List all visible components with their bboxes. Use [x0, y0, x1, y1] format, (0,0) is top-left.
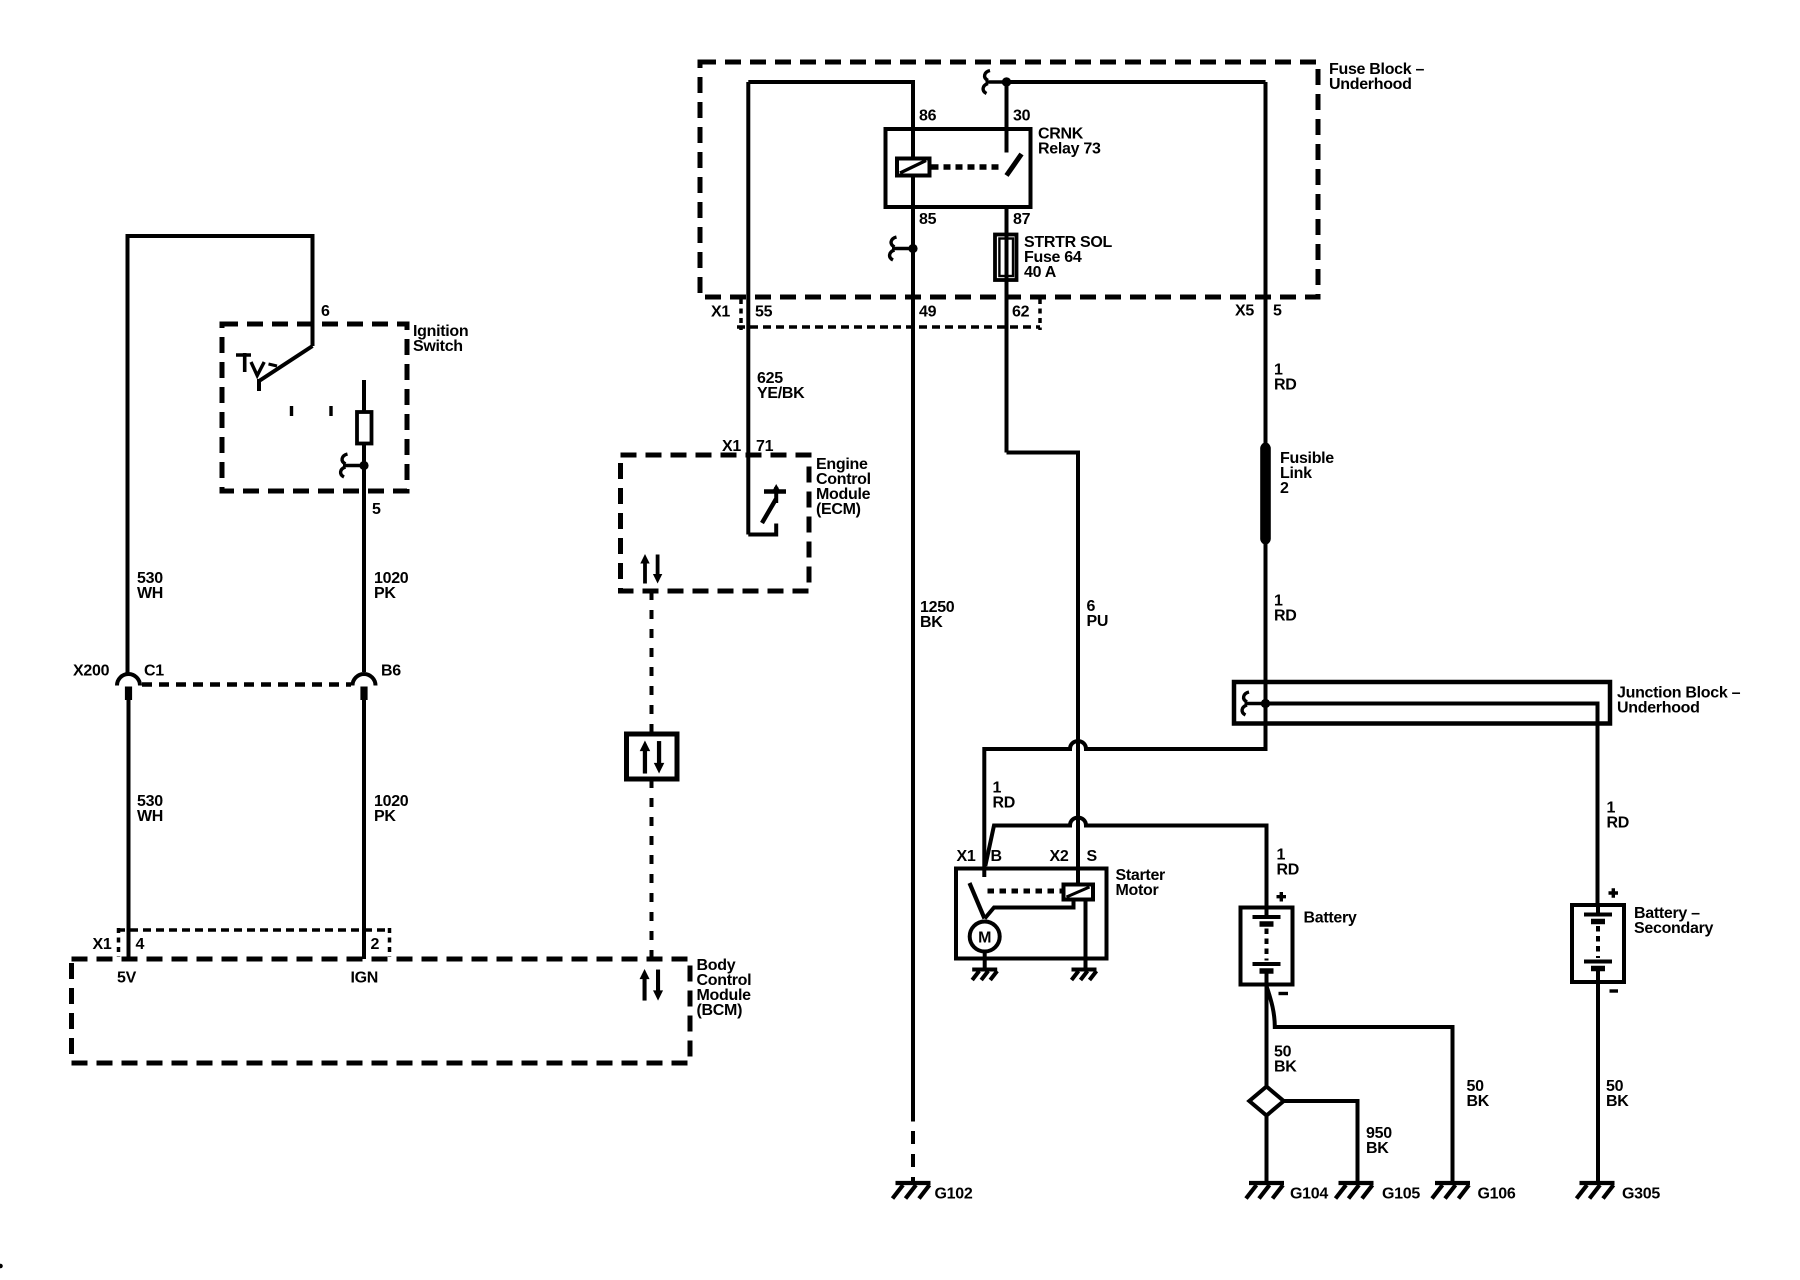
svg-text:5: 5: [1273, 303, 1282, 320]
svg-text:X1: X1: [722, 438, 741, 455]
battery secondary minus sign: [1610, 989, 1619, 992]
wire splice to G104: [1265, 1116, 1269, 1184]
svg-text:6: 6: [321, 303, 330, 320]
starter solenoid ground: [1072, 970, 1097, 981]
svg-text:PU: PU: [1087, 613, 1109, 630]
svg-text:B6: B6: [381, 663, 401, 680]
battery (main): [1241, 908, 1293, 985]
ignition feed wire from pin 6 box: [128, 236, 313, 674]
wire resistor branch to pin 5: [362, 380, 366, 672]
serial data dashed line to BCM: [650, 779, 654, 959]
ECM serial data arrows: [640, 554, 662, 584]
wire relay coil through 86-85: [911, 129, 915, 207]
ignition switch box: [222, 324, 407, 491]
wire battery positive to starter B with hop: [985, 818, 1266, 908]
wire 1020 PK lower: [362, 700, 366, 959]
svg-text:G305: G305: [1622, 1186, 1660, 1203]
svg-text:55: 55: [755, 304, 773, 321]
svg-text:BK: BK: [1366, 1140, 1389, 1157]
svg-text:5: 5: [372, 501, 381, 518]
battery secondary plus sign: [1609, 888, 1619, 898]
svg-text:WH: WH: [137, 585, 163, 602]
ECM internal switch bracket: [748, 524, 776, 535]
clip in junction block: [1242, 692, 1270, 715]
battery - secondary: [1572, 905, 1624, 982]
wire solenoid to ground: [1084, 900, 1088, 970]
battery minus sign: [1279, 992, 1289, 995]
svg-text:RD: RD: [1274, 608, 1297, 625]
splice diamond: [1249, 1087, 1283, 1116]
svg-text:RD: RD: [993, 795, 1016, 812]
svg-text:B: B: [991, 848, 1002, 865]
svg-text:RD: RD: [1274, 377, 1297, 394]
svg-text:X5: X5: [1235, 303, 1254, 320]
Fuse Block - Underhood box: [700, 62, 1318, 297]
fusible link 2: [1261, 442, 1270, 451]
wire 530 WH lower: [127, 700, 131, 959]
svg-text:X1: X1: [711, 304, 730, 321]
svg-text:Relay 73: Relay 73: [1038, 141, 1101, 158]
svg-text:Motor: Motor: [1116, 882, 1159, 899]
svg-text:Underhood: Underhood: [1617, 700, 1700, 717]
connector dashed mate line: [142, 682, 351, 686]
starter B stub inside: [982, 869, 986, 878]
junction block - underhood box: [1234, 682, 1610, 724]
ignition switch lever: [259, 346, 313, 391]
svg-text:G106: G106: [1478, 1186, 1516, 1203]
svg-text:BK: BK: [920, 614, 943, 631]
relay dashed actuation link: [932, 164, 1003, 170]
svg-text:WH: WH: [137, 808, 163, 825]
svg-text:Secondary: Secondary: [1634, 920, 1714, 937]
Body Control Module box: [72, 959, 691, 1063]
page corner dot: [0, 1264, 3, 1269]
svg-text:87: 87: [1013, 211, 1031, 228]
ignition position dashes: [292, 406, 332, 416]
svg-text:(BCM): (BCM): [697, 1002, 743, 1019]
wire battery negative down: [1265, 985, 1269, 1087]
wire battery secondary to G305 (50 BK): [1596, 982, 1600, 1183]
ignition switch contact glyph: [236, 353, 251, 372]
svg-text:4: 4: [136, 936, 145, 953]
svg-text:X200: X200: [73, 663, 110, 680]
svg-text:C1: C1: [144, 663, 164, 680]
motor M circle: [970, 922, 1000, 952]
wire bus 55 to relay 86: [748, 82, 913, 129]
wire S pin into coil: [1076, 869, 1080, 885]
wire 6 PU jog and down to starter S: [1007, 453, 1079, 869]
svg-text:30: 30: [1013, 108, 1031, 125]
svg-text:YE/BK: YE/BK: [757, 385, 805, 402]
connector B6: [353, 674, 376, 700]
svg-text:49: 49: [919, 304, 937, 321]
connector X200 C1: [117, 674, 140, 700]
svg-text:2: 2: [1280, 480, 1289, 497]
svg-text:RD: RD: [1607, 815, 1630, 832]
starter motor box: [956, 869, 1107, 959]
svg-text:G105: G105: [1382, 1186, 1420, 1203]
wire junction block to starter B (1 RD) with hop: [984, 724, 1265, 869]
svg-text:Underhood: Underhood: [1329, 76, 1412, 93]
svg-text:M: M: [978, 930, 991, 947]
relay switch lever: [1007, 154, 1022, 176]
wire relay pin 30 stub: [1005, 82, 1009, 153]
ECM switch driver arrow: [774, 487, 778, 503]
battery plus sign: [1277, 892, 1287, 902]
svg-text:X1: X1: [93, 936, 112, 953]
wire motor to ground: [983, 952, 987, 970]
wire coil to motor: [985, 900, 1074, 919]
svg-text:G102: G102: [935, 1186, 973, 1203]
clip at ignition pin 5: [341, 454, 369, 477]
starter solenoid coil: [1064, 885, 1094, 900]
ground G102: [893, 1183, 931, 1199]
svg-text:2: 2: [371, 936, 380, 953]
node junction 30 bus: [1002, 77, 1011, 86]
svg-text:PK: PK: [374, 808, 396, 825]
svg-text:71: 71: [756, 438, 774, 455]
svg-text:PK: PK: [374, 585, 396, 602]
wire 87 down through fuse to pin 62: [1005, 207, 1009, 453]
starter motor ground: [972, 970, 997, 981]
starter switch lever: [970, 883, 985, 919]
svg-text:X2: X2: [1050, 848, 1069, 865]
svg-text:85: 85: [919, 211, 937, 228]
svg-text:86: 86: [919, 108, 937, 125]
svg-text:BK: BK: [1467, 1093, 1490, 1110]
svg-text:RD: RD: [1277, 862, 1300, 879]
svg-text:BK: BK: [1606, 1093, 1629, 1110]
wire bus 30 to X5: [1007, 80, 1266, 84]
wire X5-5 feed down to fusible link: [1264, 82, 1268, 447]
node junction block tap: [1261, 699, 1270, 708]
ignition internal resistor element: [357, 412, 372, 444]
wire fusible link to junction block: [1264, 540, 1268, 724]
svg-text:X1: X1: [957, 848, 976, 865]
svg-text:Battery: Battery: [1304, 910, 1357, 927]
ground G104: [1246, 1183, 1284, 1199]
starter dashed link: [988, 889, 1063, 894]
svg-text:40 A: 40 A: [1024, 264, 1057, 281]
svg-text:BK: BK: [1274, 1059, 1297, 1076]
svg-text:5V: 5V: [117, 970, 137, 987]
wire 85 down to pin 49 and G102 (1250 BK): [911, 207, 915, 1122]
ground G106: [1432, 1183, 1470, 1199]
BCM connector X1 row dotted face: [117, 928, 391, 932]
serial data gateway box with arrows: [627, 734, 678, 779]
svg-text:62: 62: [1012, 304, 1030, 321]
BCM serial data arrows: [640, 969, 664, 1001]
wire junction block internal bus to battery secondary: [1266, 704, 1598, 906]
Engine Control Module box: [621, 455, 810, 591]
svg-text:G104: G104: [1290, 1186, 1328, 1203]
wire 625 YE/BK vertical (pin 55 down into ECM): [746, 82, 750, 535]
ground G105: [1336, 1183, 1374, 1199]
clip at 30 bus junction: [983, 71, 1011, 94]
svg-text:S: S: [1087, 848, 1098, 865]
fuse STRTR SOL Fuse 64 40 A: [995, 235, 1017, 281]
connector X1 row dotted face line: [737, 325, 1040, 329]
ECM switch lever: [762, 499, 776, 523]
svg-text:IGN: IGN: [351, 970, 379, 987]
wire 1250 BK dashed tail to G102: [911, 1131, 915, 1183]
clip at 85 leg: [890, 237, 918, 260]
relay coil: [897, 159, 930, 176]
serial data dashed line ECM to BCM: [650, 591, 654, 734]
svg-text:Switch: Switch: [413, 338, 463, 355]
svg-text:(ECM): (ECM): [816, 501, 861, 518]
ground G305: [1577, 1183, 1615, 1199]
wire splice to G105 (950 BK): [1284, 1101, 1358, 1183]
wire branch battery negative to G106 (50 BK): [1267, 987, 1453, 1183]
relay CRNK Relay 73 box: [886, 129, 1031, 207]
